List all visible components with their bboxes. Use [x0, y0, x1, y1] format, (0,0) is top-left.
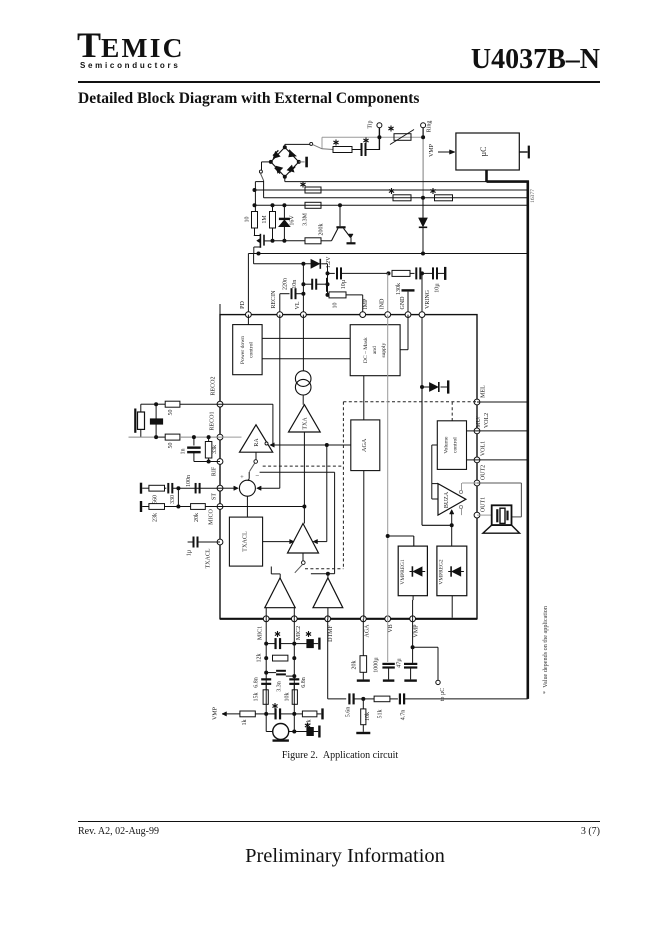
capacitor 4.7n [400, 693, 528, 720]
capacitor 330 [168, 483, 220, 504]
footer rule [78, 821, 600, 822]
svg-text:15k: 15k [254, 693, 260, 702]
svg-text:IND: IND [380, 298, 386, 309]
part number U4037B-N [471, 44, 600, 76]
resistor 50 lower [156, 434, 220, 448]
wire MEL pin to bus [477, 401, 527, 403]
pin IND [380, 298, 391, 317]
wire RECIN pin vertical [279, 294, 281, 315]
wire volume to MU/VOL2 pin [467, 430, 478, 432]
wire bridge top to switch [284, 144, 286, 147]
pin PD [240, 300, 252, 317]
svg-text:47µ: 47µ [397, 658, 403, 668]
svg-text:10µ: 10µ [341, 279, 347, 289]
wire VRING pin net [420, 273, 424, 389]
svg-text:RIF: RIF [211, 466, 217, 476]
wire VMPREG1 bottom to VMP pin [412, 596, 415, 619]
ground rail GND pin [402, 290, 415, 314]
svg-text:and: and [372, 346, 378, 354]
pin RECIN [271, 290, 283, 318]
svg-text:6.8n: 6.8n [301, 677, 307, 688]
svg-text:TXACL: TXACL [205, 548, 211, 568]
IC outline U4037B [220, 304, 477, 619]
svg-text:220n: 220n [283, 278, 289, 290]
node DTMF junction [311, 572, 330, 579]
svg-text:supply: supply [381, 343, 387, 358]
svg-text:23k: 23k [153, 513, 159, 522]
resistor 50 upper [156, 401, 220, 415]
AGA box [351, 420, 380, 619]
wire MIC1 column [264, 619, 268, 732]
switch below RA [248, 452, 258, 481]
ground ST branch [141, 483, 149, 494]
svg-text:10k: 10k [284, 693, 290, 702]
capacitor 6.8n MIC2 [289, 677, 307, 690]
resistor 12k [256, 654, 288, 663]
speaker earpiece OUT [483, 505, 520, 533]
capacitor * series line [352, 138, 379, 157]
wire VRING net to buzzer supply [422, 387, 454, 527]
pin RIF [211, 459, 223, 477]
wire MICO to TXA net [220, 506, 304, 508]
wire IND grey net [387, 273, 389, 314]
svg-text:5.6n: 5.6n [346, 707, 352, 718]
svg-text:DTMF: DTMF [328, 625, 334, 642]
capacitor 10u row [328, 267, 391, 289]
svg-text:1M: 1M [262, 215, 268, 224]
svg-text:10: 10 [333, 303, 339, 309]
label 16377 [530, 189, 536, 203]
capacitor 10n row [292, 279, 328, 290]
svg-text:12k: 12k [256, 654, 262, 663]
svg-text:10n: 10n [292, 280, 298, 289]
svg-text:20k: 20k [351, 661, 357, 670]
MOS transistor switch [254, 228, 273, 254]
svg-text:16V: 16V [290, 215, 296, 226]
footer revision [78, 826, 159, 837]
svg-text:VB: VB [388, 624, 394, 632]
footer preliminary [84, 845, 606, 868]
wire DC-Mask to AGA box [363, 376, 365, 420]
svg-text:VMP: VMP [414, 624, 420, 638]
svg-text:10: 10 [245, 217, 251, 223]
resistor * on rail 1 [300, 182, 321, 194]
capacitor series VRING row [416, 267, 433, 279]
wire Tip-Ring net [322, 135, 425, 148]
amp BUZA [438, 484, 466, 515]
svg-text:−: − [255, 472, 259, 480]
summing node MICO [239, 472, 259, 497]
resistor 560 [149, 485, 166, 504]
wire long rail 2 [264, 196, 528, 200]
zener diode 16V [279, 205, 296, 241]
pin MIC1 [258, 616, 270, 640]
wire VL pin vertical [301, 264, 305, 315]
svg-text:ST: ST [211, 493, 217, 500]
capacitor 1u TXACL [187, 537, 221, 557]
wire AGA out to RA input [270, 443, 351, 447]
op-amp TX summer [288, 524, 319, 554]
op-amp DTMF buffer [313, 578, 343, 619]
pin VMP [410, 616, 420, 638]
resistor 15k [254, 690, 269, 705]
wire VMP to uC terminal [413, 647, 438, 680]
transistor Q1 [321, 205, 356, 243]
capacitor 1n [181, 437, 201, 461]
svg-text:µC: µC [479, 147, 488, 157]
svg-text:VMPREG2: VMPREG2 [439, 559, 445, 584]
diode in VMPREG1 [410, 566, 426, 576]
arrow RECIN into summer [257, 486, 280, 490]
pin MEL [474, 385, 486, 405]
wire ST-MICO link [176, 488, 180, 508]
pin AGA [360, 616, 370, 638]
header rule [78, 81, 600, 83]
Volume control box [437, 421, 466, 470]
ground MICO branch [141, 501, 149, 512]
pin VB [385, 616, 394, 633]
uC terminal bar right [519, 146, 529, 159]
resistor 10 [245, 212, 258, 233]
wire volume left elbow to BUZA [432, 445, 438, 499]
resistor 3.3M on rail 3 [303, 202, 321, 226]
diode 1.2V [311, 256, 332, 269]
wire AGA node down to TX summer [313, 445, 327, 544]
varistor * on Tip-Ring line [388, 126, 414, 145]
svg-text:AGA: AGA [365, 624, 371, 638]
wire OUT1 BUZA tap [459, 505, 462, 515]
svg-text:10k: 10k [365, 712, 371, 721]
label VMP arrow left [213, 706, 240, 720]
svg-text:560: 560 [153, 495, 159, 504]
VMP arrow into uC [429, 143, 455, 157]
wire RECO1 stub [220, 436, 242, 438]
op-amp TXA [289, 405, 321, 432]
pin OUT1 [474, 497, 486, 518]
capacitor 10u VRING [433, 267, 445, 293]
svg-text:VOL2: VOL2 [484, 413, 490, 428]
wire summer to TXACL [246, 496, 248, 517]
earpiece transducer [129, 404, 157, 437]
capacitor across earpiece [150, 402, 162, 439]
wire RIF net [194, 460, 220, 464]
dashed group lines [263, 402, 477, 569]
wire bridge bottom to uC supply rail [285, 177, 487, 182]
terminal Tip [368, 120, 382, 150]
resistor 51k [363, 696, 398, 718]
capacitor 220n RECIN [280, 278, 306, 299]
main bus vertical [526, 181, 529, 699]
capacitor 1000u VB [374, 619, 395, 681]
wire long rail 3 [253, 203, 528, 207]
wire RA switch alt throw to DTMF node [260, 472, 335, 573]
wire power-down to DC-Mask [262, 338, 350, 358]
diode in VMPREG2 [448, 566, 464, 576]
wire row to 200k [271, 239, 306, 243]
svg-text:VRING: VRING [425, 289, 431, 309]
svg-text:RECO1: RECO1 [210, 411, 216, 430]
svg-text:VMPREG1: VMPREG1 [400, 559, 406, 584]
pin TXACL [205, 539, 223, 568]
pin MICO [208, 504, 223, 525]
pin VRING [419, 289, 431, 317]
svg-text:1n: 1n [181, 449, 187, 455]
wire VMPREG1 to VB net [386, 534, 414, 546]
resistor 20k MICO [178, 504, 220, 522]
svg-text:control: control [453, 437, 459, 453]
switch below TX summer [295, 553, 305, 573]
page title [78, 90, 419, 108]
wire RECO2 to RA [220, 404, 273, 446]
svg-text:VOL1: VOL1 [481, 441, 487, 456]
wire VOL1 pin to bus [477, 459, 527, 461]
uC box [456, 133, 519, 170]
svg-text:3.3M: 3.3M [303, 212, 309, 226]
resistor 20k AGA [351, 619, 370, 681]
svg-text:33k: 33k [212, 445, 218, 454]
pin MU/VOL2 [474, 413, 490, 434]
op-amp RA [240, 425, 273, 452]
arrow into BUZA bottom [450, 510, 454, 526]
pin VL [295, 301, 306, 317]
resistor 10k MIC2 [284, 690, 297, 705]
svg-text:OUT1: OUT1 [481, 497, 487, 512]
svg-text:50: 50 [168, 410, 174, 416]
svg-text:330: 330 [170, 495, 176, 504]
svg-text:51k: 51k [378, 710, 384, 719]
svg-text:VMP: VMP [429, 143, 435, 157]
wire bridge left to hook switch [259, 162, 270, 181]
svg-text:4.7n: 4.7n [401, 710, 407, 721]
wire OUT1 to speaker [477, 514, 492, 516]
resistor 10k DTMF [356, 699, 371, 733]
wire VL upper node [326, 264, 330, 295]
resistor 23k [149, 504, 179, 522]
svg-text:RECO2: RECO2 [211, 376, 217, 395]
terminal to uC [436, 680, 446, 701]
VMPREG2 box [437, 546, 467, 596]
resistor 130k [392, 270, 415, 295]
svg-text:Power down: Power down [240, 336, 246, 364]
svg-text:100n: 100n [186, 475, 192, 487]
resistor 200k [305, 224, 325, 244]
pin DTMF [325, 616, 334, 642]
svg-text:1µ: 1µ [187, 549, 193, 556]
svg-text:VL: VL [295, 301, 301, 309]
wire TXACL out arrow to TX summer [263, 539, 295, 543]
resistor * series line [322, 140, 352, 153]
wire elbow below hook switch [255, 181, 263, 212]
pin OUT2 [474, 465, 486, 486]
figure caption [0, 750, 662, 761]
capacitor * mic bypass [292, 723, 319, 738]
svg-text:DC – Mask: DC – Mask [363, 337, 369, 363]
svg-text:VMP: VMP [213, 706, 219, 720]
wire MIC amp apex elbow [271, 567, 280, 579]
diode MEL [422, 380, 448, 393]
pin GND [400, 296, 411, 318]
diode to rail 4 [419, 198, 427, 254]
wire DC-Mask to GND pin [400, 315, 408, 350]
svg-text:Ring: Ring [427, 121, 433, 133]
svg-text:IMP: IMP [363, 298, 369, 309]
svg-text:1k: 1k [242, 720, 248, 726]
svg-text:PD: PD [240, 300, 246, 308]
wire DTMF output row [328, 619, 347, 699]
svg-text:GND: GND [400, 296, 406, 310]
svg-text:Tip: Tip [368, 120, 374, 128]
microphone MIC [266, 724, 294, 741]
svg-text:1.2V: 1.2V [326, 256, 332, 269]
svg-text:MIC1: MIC1 [258, 626, 264, 640]
pin VOL1 [474, 441, 486, 463]
wire 1.2V diode row [254, 254, 311, 266]
capacitor 100n [186, 475, 200, 493]
wire long rail 4 (supply) [248, 252, 527, 256]
op-amp MIC1/MIC2 [265, 578, 295, 619]
svg-text:BUZA: BUZA [444, 491, 450, 508]
svg-text:* Value depends on the applic: * Value depends on the application [542, 606, 549, 694]
svg-text:16377: 16377 [530, 189, 536, 203]
pin ST [211, 485, 223, 500]
svg-text:6.8n: 6.8n [253, 677, 259, 688]
capacitor * MIC2 electrolytic [294, 631, 319, 650]
wire IND/VB grey vertical [387, 315, 389, 619]
wire OUT2 BUZA tap [459, 483, 477, 494]
pin RECO1 [210, 411, 223, 440]
svg-text:10µ: 10µ [435, 283, 441, 293]
note value depends [542, 606, 549, 694]
wire uC to bus thick [487, 170, 529, 182]
resistor * on rail 2 left [389, 188, 411, 201]
capacitor * bias [266, 703, 294, 719]
power down control box [233, 315, 262, 375]
VMPREG1 box [398, 546, 427, 596]
svg-text:200k: 200k [319, 224, 325, 236]
wire RECIN vertical to summer [279, 315, 281, 489]
svg-text:3.3n: 3.3n [276, 681, 282, 692]
svg-text:20k: 20k [194, 513, 200, 522]
svg-text:control: control [249, 342, 255, 358]
resistor * on rail 2 right [430, 188, 452, 201]
resistor 10 IMP [326, 292, 363, 315]
svg-text:MICO: MICO [208, 509, 214, 525]
svg-text:RECIN: RECIN [271, 290, 277, 309]
wire VMPREG2 top [451, 525, 453, 546]
TXACL box [229, 517, 262, 566]
svg-text:RA: RA [254, 438, 260, 447]
resistor 1M [262, 205, 276, 241]
capacitor bar right of bridge [299, 157, 307, 168]
diode bridge [269, 145, 301, 178]
pin RECO2 [211, 376, 223, 407]
wire PD net vertical [247, 254, 249, 315]
svg-text:TXACL: TXACL [242, 531, 249, 552]
wire TXA output down [302, 432, 306, 524]
switch hook to bridge [285, 142, 322, 148]
TEMIC logo [77, 24, 185, 66]
svg-text:Volume: Volume [444, 436, 450, 454]
svg-text:MU/: MU/ [476, 416, 482, 428]
current source VL [295, 315, 311, 405]
svg-text:1000µ: 1000µ [374, 657, 380, 673]
pin MIC2 [291, 616, 302, 640]
capacitor * MIC1-MIC2 [266, 631, 294, 649]
svg-text:MIC2: MIC2 [296, 626, 302, 640]
arrow ST into summer [220, 486, 238, 490]
capacitor 5.6n [346, 693, 366, 717]
capacitor 3.3n [266, 671, 294, 692]
resistor 1k to ground [294, 708, 322, 725]
wire VMPREG2 bottom [451, 596, 453, 618]
resistor 33k [205, 437, 217, 461]
pin IMP [360, 298, 369, 317]
wire OUT2 loop to speaker [477, 483, 521, 517]
resistor 1k VMP [240, 711, 266, 726]
svg-text:MEL: MEL [481, 385, 487, 398]
svg-text:AGA: AGA [361, 438, 368, 452]
svg-text:130k: 130k [396, 283, 402, 295]
wire MIC2 column [292, 619, 296, 732]
wire MU/VOL2 pin to bus [477, 430, 527, 432]
wire long rail 1 [253, 188, 528, 192]
capacitor 47u VMP [397, 619, 418, 681]
footer page number [581, 826, 600, 837]
svg-text:OUT2: OUT2 [481, 465, 487, 480]
capacitor 6.8n MIC1 [253, 677, 271, 690]
wire volume to VOL1 pin [467, 459, 478, 461]
Semiconductors subtitle [80, 61, 180, 70]
svg-text:+: + [240, 474, 244, 481]
svg-text:TXA: TXA [303, 417, 309, 430]
terminal Ring [421, 121, 433, 198]
DC-Mask supply box [350, 325, 400, 376]
svg-text:50: 50 [168, 443, 174, 449]
